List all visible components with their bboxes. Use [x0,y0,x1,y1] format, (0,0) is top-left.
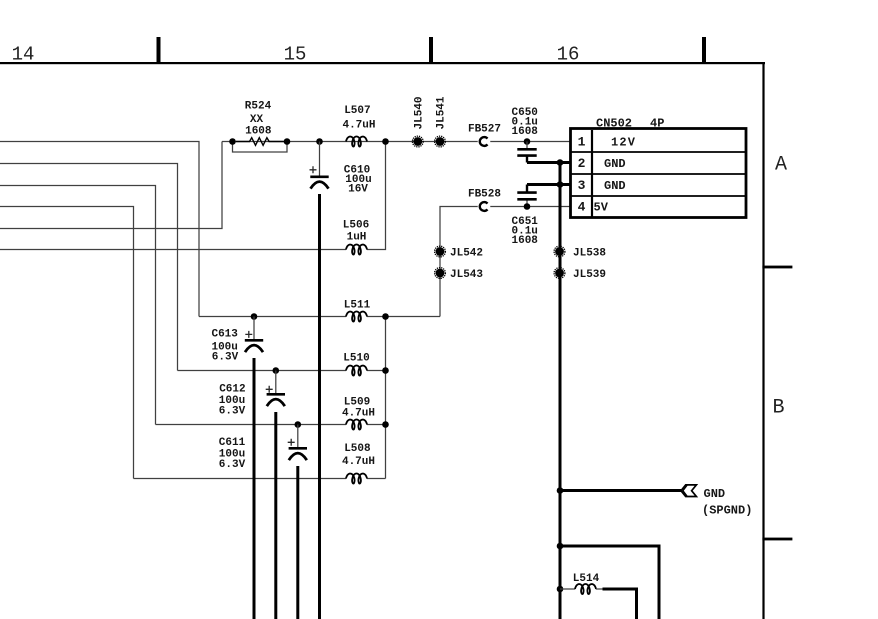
svg-text:JL540: JL540 [414,96,426,129]
wire GND link pin3 [527,183,571,186]
svg-text:C613: C613 [211,329,238,341]
capacitor C611 [219,425,307,472]
ferrite bead FB528 [468,189,501,213]
jumper JL543 [435,268,484,281]
svg-text:C612: C612 [219,384,245,396]
svg-text:16: 16 [557,44,580,66]
svg-text:R524: R524 [245,101,272,113]
svg-text:CN502: CN502 [596,117,632,131]
inductor L508 [342,443,375,484]
svg-text:6.3V: 6.3V [219,406,246,418]
wire net3 from left edge y185 [0,186,156,425]
svg-text:15: 15 [284,44,307,66]
svg-text:4: 4 [578,200,586,215]
wire right riser rows1-4 [385,317,387,479]
wire row1 5V [199,316,440,318]
svg-text:XX: XX [250,114,264,126]
node C650 junction [524,138,531,145]
inductor L507 [342,105,375,147]
svg-text:GND: GND [704,487,726,501]
wire row3 [156,424,386,426]
svg-text:L506: L506 [343,220,369,232]
svg-text:JL538: JL538 [573,248,606,260]
node L514 junction [557,586,564,593]
svg-text:1: 1 [578,135,586,150]
svg-text:C611: C611 [219,437,246,449]
wire L506 to rail riser [367,142,386,250]
node pin2 bus junction [557,159,564,166]
svg-text:FB527: FB527 [468,124,501,136]
svg-text:6.3V: 6.3V [212,352,239,364]
wire net1 from left edge y141 [0,142,199,317]
jumper JL539 [554,268,606,281]
svg-text:JL542: JL542 [450,248,483,260]
resistor R524 [229,101,290,153]
svg-text:L514: L514 [573,573,600,585]
jumper JL538 [554,246,606,259]
svg-text:4P: 4P [650,117,664,131]
svg-text:L510: L510 [343,353,369,365]
svg-text:B: B [772,397,784,420]
capacitor C610 [310,142,372,196]
ferrite bead FB527 [468,124,501,148]
svg-text:2: 2 [578,156,586,171]
capacitor C613 [211,317,263,364]
wire C611 lead [296,466,299,619]
inductor L506 [343,220,369,255]
node L509 right junction [382,421,389,428]
wire row2 [178,370,386,372]
jumper JL540 [412,96,425,146]
node row1 C613 junction [251,313,258,320]
svg-text:JL541: JL541 [436,96,448,129]
svg-text:FB528: FB528 [468,189,501,201]
svg-text:GND: GND [604,157,626,171]
node L507 right junction [382,138,389,145]
jumper JL542 [435,246,483,259]
inductor L511 [344,300,371,322]
svg-text:5V: 5V [594,201,609,215]
wire L514 output [603,589,637,619]
wire GND link pin2 [527,161,571,164]
svg-text:6.3V: 6.3V [219,459,246,471]
wire C610 ground lead [318,194,321,619]
wire frame spur [560,546,659,619]
wire net2 from left edge y163 [0,164,178,371]
svg-text:JL539: JL539 [573,269,606,281]
wire GND bus vertical [559,163,562,619]
inductor L509 [342,397,375,430]
svg-text:1608: 1608 [512,235,539,247]
inductor L510 [343,353,369,376]
svg-text:12V: 12V [611,136,636,150]
wire net4 from left edge y206.5 [0,207,134,479]
node L510 right junction [382,367,389,374]
wire GND spur [560,489,681,492]
wire riser JL542/543 to FB528 row [440,207,571,317]
connector CN502 [571,117,747,218]
jumper JL541 [435,96,448,147]
svg-text:1608: 1608 [512,126,539,138]
wire net6 from left edge y249.5 to L506 [0,249,346,251]
capacitor C650 [512,107,539,163]
svg-text:1uH: 1uH [347,232,367,244]
node L511 right junction [382,313,389,320]
wire C613 lead [253,358,256,619]
node C651 junction [524,203,531,210]
svg-text:3: 3 [578,178,586,193]
node pin3 bus junction [557,181,564,188]
svg-text:4.7uH: 4.7uH [342,120,375,132]
svg-text:GND: GND [604,179,626,193]
svg-text:16V: 16V [348,184,368,196]
wire row4 [134,478,386,480]
svg-text:L508: L508 [344,443,371,455]
node C610 junction [316,138,323,145]
svg-text:JL543: JL543 [450,269,483,281]
svg-text:1608: 1608 [245,126,272,138]
inductor L514 [560,573,603,594]
svg-text:L507: L507 [344,105,370,117]
wire C612 lead [274,412,277,619]
capacitor C612 [219,371,285,418]
svg-text:A: A [775,154,787,177]
node row2 C612 junction [273,367,280,374]
svg-text:L511: L511 [344,300,371,312]
node frame spur junction [557,543,564,550]
net arrow GND SPGND [681,485,752,518]
capacitor C651 [512,185,539,248]
node row3 C611 junction [295,421,302,428]
wire net5 from left edge y228.5 to 12V rail [0,142,222,229]
svg-text:4.7uH: 4.7uH [342,408,375,420]
wire 12V rail [222,141,571,143]
svg-text:(SPGND): (SPGND) [702,504,752,518]
node GND spur junction [557,487,564,494]
svg-text:4.7uH: 4.7uH [342,456,375,468]
svg-text:14: 14 [12,44,35,66]
